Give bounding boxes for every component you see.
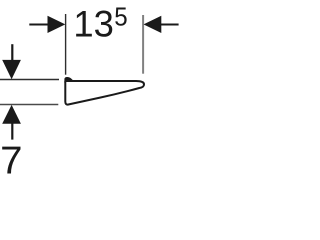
svg-text:13: 13 xyxy=(73,2,114,44)
svg-text:7: 7 xyxy=(0,140,22,180)
svg-text:5: 5 xyxy=(114,1,127,31)
